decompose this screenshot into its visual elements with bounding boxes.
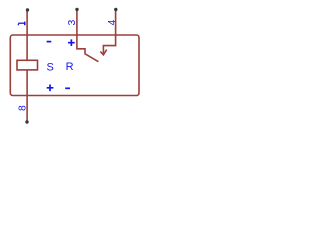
wire pin1-coil-pin8 vertical xyxy=(26,10,28,122)
pin 4 end dot xyxy=(114,8,117,11)
pin 4 wire with arrow stem xyxy=(103,10,115,54)
pin number 1 xyxy=(18,22,25,26)
svg-text:3: 3 xyxy=(67,20,78,26)
bottom minus mark xyxy=(65,87,70,89)
svg-text:4: 4 xyxy=(107,19,118,25)
bottom plus mark xyxy=(47,85,54,92)
relay body outline K1 xyxy=(10,35,139,96)
pin 8 end dot xyxy=(25,120,28,123)
pin 3 wire with contact step xyxy=(77,9,99,61)
pin 1 end dot xyxy=(26,8,29,11)
pin 3 end dot xyxy=(75,8,78,11)
svg-text:8: 8 xyxy=(18,105,29,111)
svg-text:R: R xyxy=(66,61,74,73)
svg-text:S: S xyxy=(47,61,54,73)
top minus mark xyxy=(47,41,52,43)
arrowhead xyxy=(100,50,106,55)
coil rectangle xyxy=(17,60,38,70)
top plus mark xyxy=(68,39,75,46)
